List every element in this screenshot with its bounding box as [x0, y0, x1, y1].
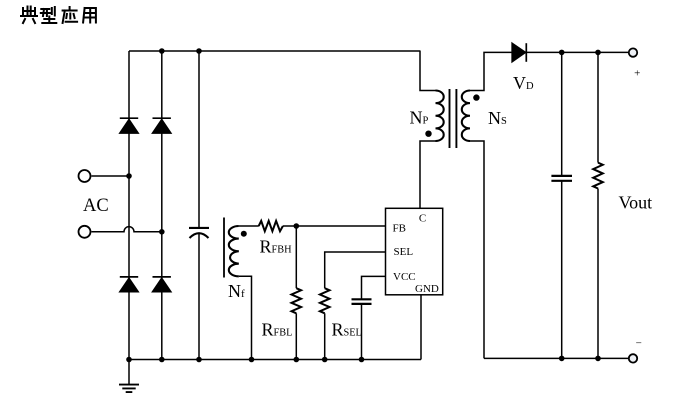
wire RFBL to ground rail [295, 313, 297, 359]
wire Vout resistor bottom [597, 189, 599, 359]
svg-text:VD: VD [513, 73, 534, 93]
diode D1 [120, 117, 138, 119]
node FB junction [294, 223, 300, 229]
svg-text:+: + [634, 68, 640, 80]
node secondary bottom junction 2 [595, 356, 601, 362]
node ground rail junction 2 [159, 357, 165, 363]
wire top rail (primary side) [129, 50, 421, 52]
output terminal + [629, 48, 637, 56]
wire RFBH to FB pin [283, 225, 386, 227]
node ground rail junction 1 [126, 357, 132, 363]
node ground rail junction 5 [294, 357, 300, 363]
wire Nf top to RFBH [239, 225, 259, 227]
wire output cap bottom [561, 181, 563, 359]
svg-text:SEL: SEL [394, 246, 414, 258]
diode D3 [120, 276, 138, 278]
svg-text:VCC: VCC [393, 271, 416, 283]
wire GND pin to ground rail [420, 295, 422, 360]
svg-text:C: C [419, 212, 426, 224]
capacitor C1 (bulk) [189, 227, 209, 229]
winding Nf [229, 226, 239, 276]
wire bridge column 2 [161, 51, 163, 360]
node AC1 junction [126, 173, 132, 179]
wire bottom rail (secondary side) [484, 357, 629, 359]
svg-text:−: − [636, 338, 642, 350]
node secondary top junction 1 [559, 50, 565, 56]
diode D4 [153, 276, 171, 278]
svg-text:RFBH: RFBH [260, 237, 293, 257]
resistor RSEL [320, 288, 330, 313]
diode VD [525, 43, 527, 62]
wire bottom rail (primary side) [129, 359, 421, 361]
wire AC line 2 with hop [92, 227, 162, 232]
node ground rail junction 7 [359, 357, 365, 363]
wire VCC cap to ground rail [361, 304, 363, 360]
resistor RFBL [292, 288, 302, 313]
svg-text:RSEL: RSEL [332, 320, 362, 340]
capacitor C2 (VCC) [352, 299, 372, 304]
svg-text:Nf: Nf [228, 281, 245, 301]
node top rail junction 1 [159, 48, 165, 54]
svg-text:RFBL: RFBL [262, 320, 293, 340]
node AC2 junction [159, 229, 165, 235]
wire AC line 1 [92, 175, 130, 177]
svg-text:NP: NP [410, 108, 429, 128]
wire primary bottom to C pin [420, 141, 436, 208]
resistor Rout [593, 163, 603, 189]
wire bulk cap column upper [198, 51, 200, 228]
winding Ns [462, 91, 470, 142]
winding Nf core [223, 218, 225, 278]
winding Nf phase dot [241, 231, 247, 237]
diode D2 [153, 117, 171, 119]
resistor RFBH [259, 221, 283, 231]
wire Vout resistor top [597, 52, 599, 162]
svg-text:NS: NS [488, 108, 507, 128]
wire secondary bottom [470, 141, 484, 358]
node ground rail junction 4 [249, 357, 255, 363]
svg-text:AC: AC [83, 196, 109, 216]
wire secondary top to diode [470, 52, 512, 90]
wire bridge column 1 [128, 51, 130, 360]
wire diode to + terminal [526, 51, 629, 53]
wire bulk cap column lower [198, 233, 200, 360]
AC terminal 2 [79, 226, 91, 238]
node ground rail junction 3 [196, 357, 202, 363]
node secondary bottom junction 1 [559, 356, 565, 362]
svg-text:GND: GND [415, 283, 439, 295]
svg-text:FB: FB [393, 222, 406, 234]
output terminal - [629, 354, 637, 362]
node secondary top junction 2 [595, 50, 601, 56]
transformer core [450, 89, 457, 148]
wire primary top [420, 51, 436, 91]
wire Nf bottom to ground rail [239, 276, 252, 359]
ground [128, 360, 130, 385]
node top rail junction 2 [196, 48, 202, 54]
node ground rail junction 6 [322, 357, 328, 363]
title 典型应用 [21, 7, 96, 24]
winding Np [436, 91, 444, 142]
wire FB node down to RFBL [295, 226, 297, 288]
wire RSEL to SEL pin [325, 252, 386, 288]
op-amp U1 (controller IC box) [386, 208, 443, 294]
AC terminal 1 [79, 170, 91, 182]
winding Ns phase dot [473, 94, 479, 100]
wire VCC cap to VCC pin [362, 276, 386, 299]
winding Np phase dot [425, 131, 431, 137]
svg-text:Vout: Vout [619, 193, 653, 213]
wire RSEL to ground rail [324, 313, 326, 359]
capacitor C3 (output) [551, 176, 572, 181]
wire output cap top [561, 52, 563, 175]
